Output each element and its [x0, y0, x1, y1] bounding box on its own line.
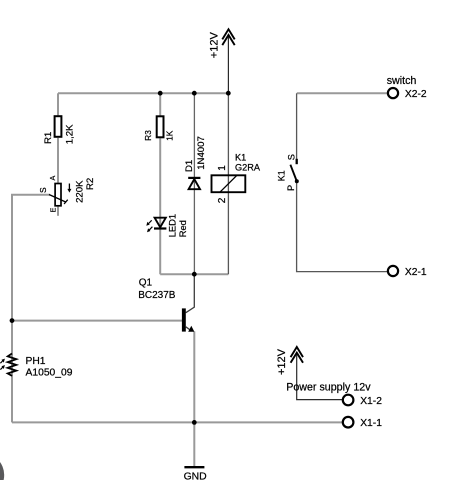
- svg-text:E: E: [48, 208, 57, 213]
- svg-text:LED1: LED1: [166, 214, 177, 237]
- svg-text:X2-2: X2-2: [405, 89, 427, 100]
- svg-text:P: P: [286, 185, 296, 191]
- svg-text:A: A: [48, 176, 57, 181]
- svg-text:X1-1: X1-1: [360, 418, 382, 429]
- svg-text:S: S: [38, 187, 48, 193]
- svg-text:X2-1: X2-1: [405, 267, 427, 278]
- svg-text:Q1: Q1: [139, 278, 153, 289]
- svg-text:Power supply 12v: Power supply 12v: [286, 381, 371, 393]
- svg-text:+12V: +12V: [276, 348, 288, 375]
- svg-text:+12V: +12V: [208, 32, 220, 59]
- svg-text:1: 1: [217, 165, 228, 171]
- svg-text:K1: K1: [235, 153, 246, 163]
- svg-text:1,2K: 1,2K: [65, 124, 76, 144]
- svg-text:BC237B: BC237B: [138, 290, 176, 301]
- svg-text:Red: Red: [177, 220, 188, 237]
- svg-text:X1-2: X1-2: [360, 396, 382, 407]
- svg-text:R1: R1: [43, 132, 54, 144]
- svg-text:switch: switch: [387, 75, 417, 87]
- svg-text:S: S: [287, 154, 297, 160]
- svg-text:PH1: PH1: [26, 356, 46, 367]
- svg-text:G2RA: G2RA: [235, 163, 261, 173]
- svg-text:220K: 220K: [74, 180, 85, 203]
- svg-text:1K: 1K: [166, 130, 175, 141]
- svg-text:1N4007: 1N4007: [196, 136, 207, 170]
- svg-text:R3: R3: [144, 130, 153, 141]
- svg-text:K1: K1: [276, 170, 286, 181]
- svg-text:D1: D1: [184, 160, 195, 172]
- svg-text:A1050_09: A1050_09: [26, 367, 73, 378]
- svg-text:R2: R2: [85, 178, 96, 190]
- svg-text:GND: GND: [184, 471, 207, 480]
- svg-text:2: 2: [217, 197, 228, 203]
